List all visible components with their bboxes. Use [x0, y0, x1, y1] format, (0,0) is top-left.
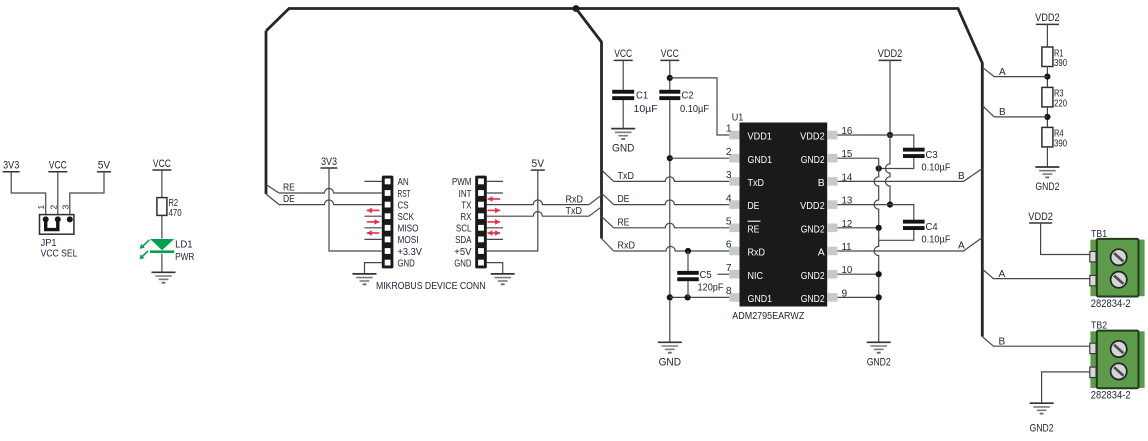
label JP1 [41, 238, 57, 249]
svg-text:RxD: RxD [748, 248, 766, 259]
svg-text:PWM: PWM [452, 177, 472, 188]
label B (TB2) [999, 336, 1006, 347]
pin number 11 [842, 242, 852, 253]
ground (GND2 resistors) [1035, 167, 1059, 177]
svg-text:A: A [999, 269, 1006, 280]
resistor R1 [1042, 47, 1068, 69]
svg-text:MOSI: MOSI [398, 235, 419, 246]
arrow MOSI [367, 230, 380, 236]
svg-text:TxD: TxD [618, 171, 635, 182]
label SDA (right header) [455, 235, 472, 246]
label RST (left header) [398, 189, 411, 200]
label GND2 (TB2) [1030, 422, 1054, 434]
wire VDD1 (pin1) [670, 78, 730, 135]
pin number 1 [726, 124, 732, 135]
svg-text:C4: C4 [926, 222, 939, 233]
svg-text:5: 5 [726, 217, 732, 228]
junction VCC-C2 [667, 75, 673, 81]
pin number 14 [842, 172, 853, 183]
label +3.3V (left header) [398, 247, 423, 258]
svg-text:GND2: GND2 [801, 155, 825, 166]
junction pin12 [876, 225, 882, 231]
wire GND2 vertical [874, 158, 879, 342]
label TX (right header) [461, 200, 471, 211]
svg-text:C2: C2 [682, 91, 695, 102]
wire A breakout [982, 67, 1047, 76]
svg-text:TB2: TB2 [1091, 321, 1107, 332]
wire pin12 GND2 [837, 227, 878, 229]
svg-text:B: B [958, 171, 965, 182]
svg-text:CS: CS [398, 200, 409, 211]
svg-text:1: 1 [726, 124, 732, 135]
wire stub SCL [487, 227, 503, 229]
svg-text:GND2: GND2 [1035, 181, 1059, 193]
svg-text:RST: RST [398, 189, 411, 200]
svg-text:MISO: MISO [398, 224, 419, 235]
label CS (left header) [398, 200, 409, 211]
svg-text:B: B [999, 336, 1006, 347]
svg-text:VDD2: VDD2 [800, 201, 825, 212]
capacitor C1 [612, 90, 657, 115]
bus wire left vertical [265, 31, 268, 194]
svg-text:390: 390 [1054, 138, 1067, 149]
junction C3-GND2 [876, 165, 882, 171]
wire C1-gnd [622, 100, 624, 129]
wire pin11 A [837, 238, 982, 252]
ground (GND2 chip) [867, 342, 891, 352]
svg-text:2: 2 [726, 147, 732, 158]
label MOSI (left header) [398, 235, 419, 246]
svg-text:A: A [999, 67, 1006, 78]
capacitor C4 [903, 220, 951, 246]
label GND (right header) [454, 258, 471, 269]
svg-text:2: 2 [48, 205, 58, 210]
terminal block TB1 [1090, 239, 1145, 297]
wire pin2 GND1 [670, 157, 730, 159]
svg-text:GND: GND [612, 143, 635, 155]
svg-text:282834-2: 282834-2 [1091, 389, 1131, 401]
pin number 13 [842, 196, 853, 207]
svg-text:RE: RE [618, 217, 630, 228]
svg-text:3V3: 3V3 [3, 160, 19, 172]
wire GND (left header) [365, 263, 382, 274]
ground (C1) [611, 129, 635, 139]
junction RxD-C5 [685, 248, 691, 254]
power flag 5V [70, 160, 111, 216]
label A (top) [999, 67, 1006, 78]
svg-text:GND: GND [659, 356, 682, 368]
junction GND1 pin2 [667, 155, 673, 161]
wire C3 bottom [879, 158, 914, 169]
svg-text:GND2: GND2 [1030, 422, 1054, 434]
svg-text:LD1: LD1 [175, 240, 193, 251]
power flag 3V3 [3, 160, 46, 216]
wire pin15 GND2 [837, 157, 878, 159]
ground (GND2 TB2) [1030, 403, 1054, 413]
junction B [1044, 114, 1050, 120]
wire pin10 GND2 [837, 273, 878, 275]
terminal block TB2 [1090, 331, 1145, 389]
wire stub PWM [487, 180, 503, 182]
svg-text:0.10µF: 0.10µF [922, 162, 951, 173]
label LD1 [175, 240, 193, 251]
label TB1 [1091, 229, 1107, 240]
label RE (chip) [618, 217, 630, 228]
wire GND (right header) [487, 263, 503, 274]
label U1 [732, 112, 744, 123]
junction top bus [573, 5, 580, 12]
svg-text:0.10µF: 0.10µF [680, 104, 709, 115]
svg-text:3: 3 [60, 205, 70, 210]
svg-text:0.10µF: 0.10µF [922, 234, 951, 245]
connector header left (mikrobus) [382, 176, 394, 269]
svg-text:SCK: SCK [398, 212, 415, 223]
wire stub MISO [364, 227, 381, 229]
svg-text:B: B [999, 107, 1006, 118]
svg-text:VCC: VCC [614, 48, 632, 60]
wire TX-RxD [487, 195, 602, 204]
junction GND1 bottom [667, 294, 673, 300]
label DE (chip) [618, 194, 630, 205]
wire RX-TxD [487, 207, 602, 216]
svg-text:282834-2: 282834-2 [1091, 298, 1131, 310]
power flag 3V3 (header) [321, 156, 382, 251]
jumper JP1 [40, 215, 74, 235]
resistor R3 [1042, 87, 1068, 109]
power flag VCC (R2) [152, 158, 171, 198]
svg-text:ADM2795EARWZ: ADM2795EARWZ [732, 311, 804, 322]
label TxD (header side) [566, 206, 583, 217]
chip pin names [748, 132, 825, 305]
svg-text:220: 220 [1054, 98, 1067, 109]
wire DE (to pin4) [602, 193, 730, 204]
svg-text:TxD: TxD [566, 206, 583, 217]
svg-text:TB1: TB1 [1091, 229, 1107, 240]
svg-text:TxD: TxD [748, 178, 765, 189]
label GND2 (chip) [867, 356, 891, 368]
label GND (left header) [398, 258, 415, 269]
label SCK (left header) [398, 212, 415, 223]
svg-text:RxD: RxD [566, 194, 584, 205]
label RxD (chip) [618, 241, 636, 252]
wire stub AN [364, 180, 381, 182]
wire RxD (to pin6) [602, 239, 730, 252]
wire B to TB2 [982, 337, 1090, 347]
svg-text:RE: RE [283, 183, 295, 194]
svg-text:4: 4 [726, 193, 732, 204]
power flag VDD2 (R1) [1035, 12, 1060, 47]
label DE [283, 194, 295, 205]
pin number 8 [726, 286, 732, 297]
svg-text:5V: 5V [532, 158, 545, 170]
svg-text:JP1: JP1 [41, 238, 57, 249]
wire TB2-gnd [1042, 372, 1091, 403]
wire stub SCK [364, 215, 381, 217]
label MIKROBUS DEVICE CONN [376, 280, 486, 292]
pin number 2 [726, 147, 732, 158]
wire B breakout [982, 106, 1047, 117]
junction pin10 [876, 271, 882, 277]
pin number 7 [726, 263, 732, 274]
label 282834-2 (TB2) [1091, 389, 1131, 401]
arrow INT [488, 196, 501, 202]
capacitor C3 [903, 148, 951, 174]
svg-text:GND: GND [454, 258, 471, 269]
power flag VDD2 (chip) [878, 48, 903, 135]
svg-text:DE: DE [748, 201, 760, 212]
ground (left header) [353, 274, 377, 284]
svg-text:C1: C1 [636, 91, 649, 102]
svg-text:RX: RX [460, 212, 471, 223]
svg-text:7: 7 [726, 263, 732, 274]
label VCC SEL [41, 249, 78, 260]
svg-text:VDD2: VDD2 [800, 132, 825, 143]
wire stub MOSI [364, 238, 381, 240]
power flag VCC (C1) [614, 48, 633, 90]
wire RE (to RST) [266, 185, 382, 194]
svg-text:U1: U1 [732, 112, 744, 123]
ground (LED) [152, 272, 176, 282]
svg-text:SDA: SDA [455, 235, 472, 246]
svg-text:470: 470 [169, 208, 182, 219]
svg-text:3: 3 [726, 170, 732, 181]
svg-text:VDD2: VDD2 [878, 48, 903, 60]
label A (TB1) [999, 269, 1006, 280]
svg-text:3V3: 3V3 [321, 156, 337, 168]
pin number 9 [842, 288, 848, 299]
wire A to TB1 [982, 269, 1090, 279]
arrow TX [488, 208, 501, 214]
wire LED-gnd [161, 254, 163, 273]
power flag VCC (JP1) [48, 160, 67, 216]
label MISO (left header) [398, 224, 419, 235]
wire R4-gnd [1046, 147, 1048, 167]
label RxD (header side) [566, 194, 584, 205]
pin number 15 [842, 149, 853, 160]
svg-text:VDD1: VDD1 [748, 132, 773, 143]
svg-text:+5V: +5V [454, 247, 472, 258]
svg-text:MIKROBUS DEVICE CONN: MIKROBUS DEVICE CONN [376, 280, 486, 292]
svg-text:RE: RE [748, 224, 760, 235]
svg-text:5V: 5V [98, 160, 111, 172]
LED LD1 [140, 239, 175, 259]
label GND (C1) [612, 143, 635, 155]
wire R3-R4 [1046, 107, 1048, 128]
svg-text:INT: INT [459, 189, 472, 200]
ground (right header) [491, 274, 515, 284]
svg-text:A: A [818, 248, 825, 259]
power flag VDD2 (TB1) [1028, 211, 1090, 255]
svg-text:VCC: VCC [49, 160, 67, 172]
wire R1-R3 [1046, 67, 1048, 88]
label B (top) [999, 107, 1006, 118]
junction A [1044, 74, 1050, 80]
wire stub INT [487, 192, 503, 194]
resistor R4 [1042, 127, 1068, 149]
junction C5 bottom [685, 294, 691, 300]
svg-text:390: 390 [1054, 58, 1067, 69]
pin number 4 [726, 193, 732, 204]
svg-text:VCC: VCC [153, 158, 171, 170]
label SCL (right header) [456, 224, 472, 235]
label GND2 (resistors) [1035, 181, 1059, 193]
capacitor C2 [659, 90, 709, 115]
svg-text:SCL: SCL [456, 224, 472, 235]
svg-text:DE: DE [618, 194, 630, 205]
label TxD [618, 171, 635, 182]
resistor R2 [157, 198, 182, 219]
arrow SCK [367, 208, 380, 214]
wire pin8 GND1 [670, 296, 730, 298]
svg-text:VDD2: VDD2 [1028, 211, 1053, 223]
svg-text:DE: DE [283, 194, 295, 205]
svg-text:TX: TX [461, 200, 471, 211]
wire stub SDA [487, 238, 503, 240]
label AN (left header) [398, 177, 409, 188]
bus wire middle branch [576, 9, 602, 239]
wire pin14 B [837, 169, 982, 182]
svg-text:8: 8 [726, 286, 732, 297]
junction VDD2 pin13 [887, 202, 893, 208]
wire pin9 GND2 [837, 296, 878, 298]
pin number 12 [842, 219, 853, 230]
pin number 3 [726, 170, 732, 181]
pin number 16 [842, 126, 853, 137]
label ADM2795EARWZ [732, 311, 804, 322]
svg-text:GND: GND [398, 258, 415, 269]
svg-text:1: 1 [36, 205, 46, 210]
label RE [283, 183, 295, 194]
wire VDD2 vertical [885, 135, 890, 205]
JP1 pin numbers [36, 205, 70, 210]
svg-text:GND1: GND1 [748, 155, 773, 166]
pin number 10 [842, 265, 853, 276]
svg-text:A: A [958, 241, 965, 252]
label 282834-2 (TB1) [1091, 298, 1131, 310]
label GND (chip) [659, 356, 682, 368]
label PWR [175, 252, 194, 263]
label A (pin11) [958, 241, 965, 252]
svg-text:GND2: GND2 [867, 356, 891, 368]
svg-text:C5: C5 [700, 270, 713, 281]
junction VDD2 pin16 [887, 132, 893, 138]
op-amp U1 body (ADM2795EARWZ) [729, 123, 837, 307]
svg-text:120pF: 120pF [698, 282, 724, 293]
svg-text:NIC: NIC [748, 271, 764, 282]
ground (GND1) [658, 342, 682, 352]
svg-text:GND2: GND2 [801, 224, 825, 235]
connector header right (mikrobus) [475, 176, 487, 269]
label +5V (right header) [454, 247, 472, 258]
wire DE (to CS) [266, 194, 382, 205]
svg-text:RxD: RxD [618, 241, 636, 252]
arrow MISO [367, 219, 380, 225]
label RX (right header) [460, 212, 471, 223]
wire TxD (to pin3) [602, 170, 730, 181]
svg-text:B: B [818, 178, 825, 189]
svg-text:GND2: GND2 [801, 294, 825, 305]
junction pin9 [876, 294, 882, 300]
svg-text:VCC: VCC [661, 48, 679, 60]
bus wire top [266, 9, 982, 337]
power flag 5V [487, 158, 545, 251]
wire pin16 VDD2 [837, 135, 913, 148]
arrow RX [488, 219, 501, 225]
arrow SDA [488, 230, 501, 236]
svg-text:+3.3V: +3.3V [398, 247, 423, 258]
svg-text:AN: AN [398, 177, 409, 188]
label TB2 [1091, 321, 1107, 332]
svg-text:GND1: GND1 [748, 294, 773, 305]
power flag VCC (C2) [660, 48, 679, 90]
wire NIC stub (pin7) [718, 273, 730, 275]
label INT (right header) [459, 189, 472, 200]
label B (pin14) [958, 171, 965, 182]
pin number 6 [726, 240, 732, 251]
wire R2-LED [161, 215, 163, 238]
svg-text:10µF: 10µF [634, 104, 658, 115]
svg-text:VCC SEL: VCC SEL [41, 249, 78, 260]
capacitor C5 [677, 251, 723, 297]
svg-text:VDD2: VDD2 [1035, 12, 1060, 24]
wire RE (to pin5) [602, 216, 730, 227]
pin number 5 [726, 217, 732, 228]
wire C2-GND1 vertical [669, 100, 671, 342]
svg-text:GND2: GND2 [801, 271, 825, 282]
wire C4 bottom [879, 230, 914, 240]
label PWM (right header) [452, 177, 472, 188]
svg-text:6: 6 [726, 240, 732, 251]
svg-text:PWR: PWR [175, 252, 194, 263]
wire pin13 VDD2 [837, 205, 913, 220]
svg-text:C3: C3 [926, 150, 939, 161]
